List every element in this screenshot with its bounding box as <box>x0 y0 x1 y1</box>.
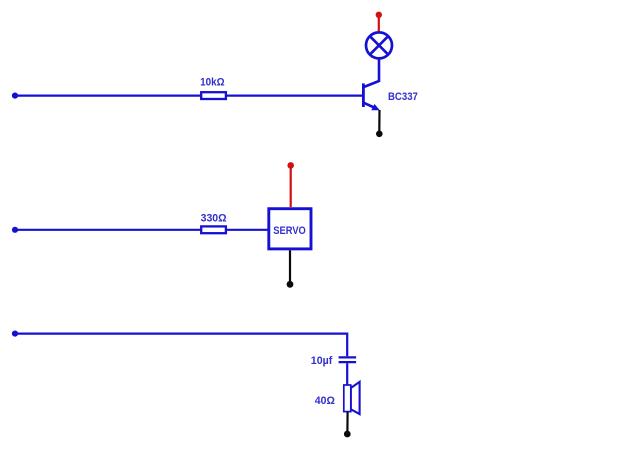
wire: T3 to capacitor C1 <box>15 334 347 357</box>
wire: emitter to ground (black) <box>378 110 380 132</box>
ground node (black) <box>344 431 351 438</box>
wire: R2 to servo <box>226 229 268 231</box>
speaker LS1 <box>344 382 360 414</box>
resistor R2 <box>201 226 226 233</box>
ground node (black) <box>376 131 383 138</box>
wire: T2 to R2 <box>15 229 202 231</box>
node: input terminal T1 <box>12 93 18 99</box>
node: input terminal T2 <box>12 227 18 233</box>
resistor R1 <box>201 92 226 99</box>
svg-text:330Ω: 330Ω <box>201 213 227 225</box>
servo M1 box <box>269 209 311 249</box>
svg-text:40Ω: 40Ω <box>315 395 335 407</box>
wire: speaker to ground (black) <box>346 412 348 431</box>
wire: collector to lamp <box>378 59 381 83</box>
svg-text:SERVO: SERVO <box>273 225 306 237</box>
wire: lamp to +V (red) <box>378 15 380 31</box>
power node +V (red) <box>287 162 294 169</box>
wire: servo to ground (black) <box>289 250 291 281</box>
transistor Q1 BC337 <box>363 81 379 110</box>
lamp L1 <box>366 32 392 58</box>
node: input terminal T3 <box>12 331 18 337</box>
wire: R1 to Q1 base <box>226 94 362 96</box>
ground node (black) <box>287 281 294 288</box>
svg-text:10kΩ: 10kΩ <box>200 77 225 89</box>
wire: C1 to speaker <box>346 363 348 385</box>
wire: T1 to R1 <box>15 94 202 96</box>
svg-text:BC337: BC337 <box>388 91 418 103</box>
svg-text:10µf: 10µf <box>311 355 333 367</box>
power node +V (red) <box>376 12 382 18</box>
capacitor C1 <box>339 357 357 362</box>
wire: servo to +V (red) <box>290 168 292 207</box>
